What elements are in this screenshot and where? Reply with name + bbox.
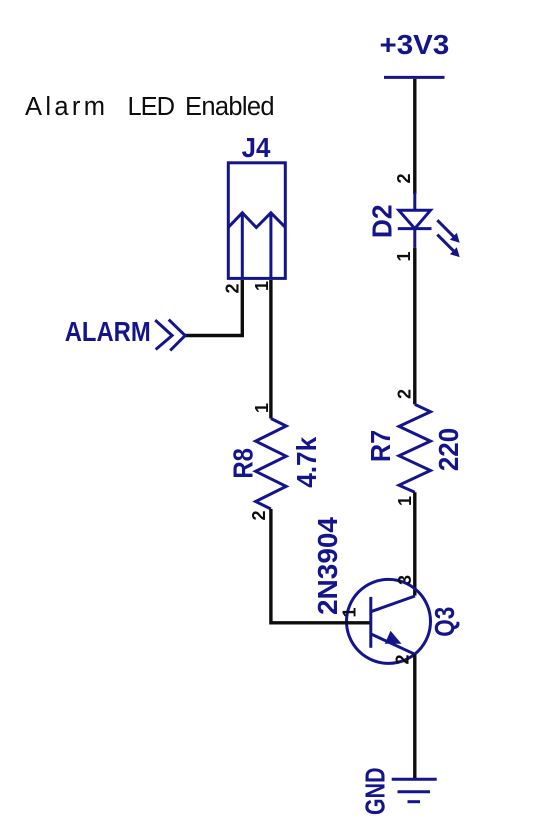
- svg-text:4.7k: 4.7k: [291, 436, 322, 488]
- wire R8 pin 2 to Q3 base: [271, 509, 370, 623]
- ground symbol GND: [392, 779, 437, 802]
- wire D2 pin 1 to R7 pin 2: [413, 248, 416, 405]
- svg-text:220: 220: [433, 428, 464, 471]
- power flag +3V3: [380, 29, 450, 78]
- svg-text:D2: D2: [367, 204, 398, 238]
- svg-text:3: 3: [395, 575, 415, 585]
- transistor Q3 2N3904: [347, 579, 431, 663]
- svg-text:2: 2: [395, 389, 415, 399]
- svg-text:2: 2: [393, 654, 413, 664]
- svg-text:ALARM: ALARM: [65, 316, 151, 347]
- svg-text:J4: J4: [242, 132, 271, 163]
- svg-text:Enabled: Enabled: [185, 93, 275, 121]
- connector J4: [228, 163, 285, 279]
- svg-text:1: 1: [340, 607, 360, 617]
- sheet title text "Alarm LED Enabled": [25, 93, 275, 121]
- wire J4 pin 2 to ALARM label: [185, 280, 242, 336]
- wire +3V3 to D2 pin 2: [413, 79, 416, 194]
- svg-text:+3V3: +3V3: [380, 29, 450, 60]
- wire J4 pin 1 to R8 pin 1: [269, 280, 272, 419]
- svg-text:Alarm: Alarm: [25, 93, 105, 121]
- svg-text:1: 1: [252, 403, 272, 413]
- svg-text:Q3: Q3: [429, 607, 460, 637]
- svg-text:2: 2: [249, 510, 269, 520]
- svg-text:R8: R8: [227, 448, 258, 479]
- svg-text:2: 2: [394, 173, 414, 183]
- svg-text:1: 1: [395, 496, 415, 506]
- svg-text:1: 1: [394, 251, 414, 261]
- LED D2: [398, 193, 460, 258]
- svg-text:2N3904: 2N3904: [312, 516, 343, 615]
- svg-text:2: 2: [223, 283, 243, 293]
- resistor R7: [399, 404, 431, 492]
- wire R7 pin 1 to Q3 collector: [413, 492, 416, 595]
- resistor R8: [256, 419, 287, 510]
- wire Q3 emitter to GND: [413, 654, 416, 779]
- svg-text:GND: GND: [360, 767, 391, 815]
- global label ALARM: [65, 316, 185, 350]
- svg-text:R7: R7: [365, 430, 396, 462]
- svg-text:LED: LED: [128, 93, 176, 121]
- svg-text:1: 1: [252, 281, 272, 291]
